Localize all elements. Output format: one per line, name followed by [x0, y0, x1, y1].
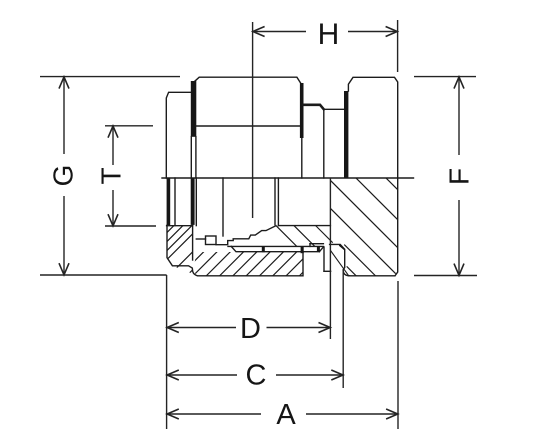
body (cap) outline top half: [348, 77, 397, 275]
step washer between nut and body: [303, 105, 344, 178]
hatch line crossing notch: [331, 251, 349, 276]
collar (left sleeve) outline top half: [166, 92, 191, 178]
collar inner edge line (section): [174, 178, 176, 226]
body block hatching: [331, 178, 398, 276]
body left dark edge bar: [344, 91, 348, 178]
nut skirt hatching: [180, 226, 363, 276]
collar/nut boundary in section: [192, 225, 194, 260]
nut wrench-flat line: [196, 125, 302, 127]
dimension A line with arrows: [167, 409, 398, 419]
thread bore cavity edges: [275, 178, 330, 226]
left extension line for A C D: [166, 275, 168, 429]
body underside notch profile: [330, 244, 350, 275]
dimension letter D: [240, 313, 261, 345]
dimension T top extension line: [105, 125, 153, 127]
svg-text:T: T: [96, 167, 127, 184]
dimension F top extension line: [414, 76, 476, 78]
dimension H line with arrows: [253, 27, 398, 37]
seal tick marks: [262, 246, 320, 253]
dimension H extension line left (centerline through part): [252, 22, 254, 218]
dimension D right extension line: [329, 178, 331, 339]
dimension T bottom extension line: [105, 225, 156, 227]
dimension G line with arrows: [59, 77, 69, 275]
dimension letter C: [246, 360, 267, 392]
svg-text:H: H: [318, 18, 340, 51]
dimension F line with arrows: [454, 77, 464, 276]
svg-text:F: F: [444, 168, 475, 185]
dimension letter F: [444, 168, 475, 185]
nut right edge below bar: [301, 138, 303, 178]
collar hatch top line: [167, 225, 193, 227]
collar section dark bar (bottom): [167, 178, 171, 225]
dimension letter A: [276, 399, 296, 431]
ferrule small box: [206, 236, 217, 245]
collar section left edge with chamfer (bottom half): [167, 225, 303, 276]
tube/gasket strip lines: [228, 244, 323, 252]
body under-cavity hatch line at block corner: [316, 226, 332, 242]
notch step dark fill: [339, 244, 345, 250]
nut outline with chamfers: [195, 77, 301, 83]
section divide line between outside view and section view: [162, 177, 414, 179]
nut left edge line (section): [195, 178, 197, 226]
ferrule step profile polyline: [196, 226, 276, 245]
dimension letter T: [96, 167, 127, 184]
body bottom edge: [349, 275, 394, 277]
dimension G top extension line: [40, 76, 180, 78]
dimension A right extension line: [397, 281, 399, 429]
nut right dark edge bar: [300, 83, 304, 138]
svg-text:A: A: [276, 399, 296, 431]
dimension C line with arrows: [167, 370, 343, 380]
body lower-left face: [324, 247, 331, 271]
svg-text:D: D: [240, 313, 261, 345]
nut left edges below bar: [191, 137, 196, 178]
dimension D line with arrows: [167, 323, 330, 333]
svg-text:G: G: [48, 165, 79, 187]
collar section hatching: [155, 210, 253, 308]
dimension G bottom extension line: [40, 274, 167, 276]
sleeve front edge (section): [222, 178, 224, 236]
dimension letter G: [48, 165, 79, 187]
dimension T line with arrows: [108, 126, 118, 226]
nut left dark edge bar (top): [191, 81, 197, 137]
dimension letter H: [318, 18, 340, 51]
body under-cavity hatching: [276, 226, 315, 247]
svg-text:C: C: [246, 360, 267, 392]
dimension H extension line right: [397, 20, 399, 72]
nut section dark bar (bottom): [191, 178, 195, 225]
dimension F bottom extension line: [414, 275, 477, 277]
dimension C right extension line: [342, 270, 344, 388]
